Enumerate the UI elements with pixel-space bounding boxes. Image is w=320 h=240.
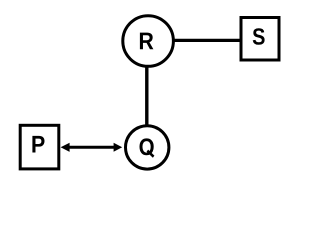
wire R-Q: [145, 64, 148, 127]
node Q (circle): [126, 126, 169, 169]
wire R-S: [172, 39, 240, 42]
node P (square): [20, 125, 59, 169]
node R (circle): [123, 16, 174, 67]
wire P-Q double arrow: [61, 143, 123, 152]
node S (square): [241, 18, 279, 61]
